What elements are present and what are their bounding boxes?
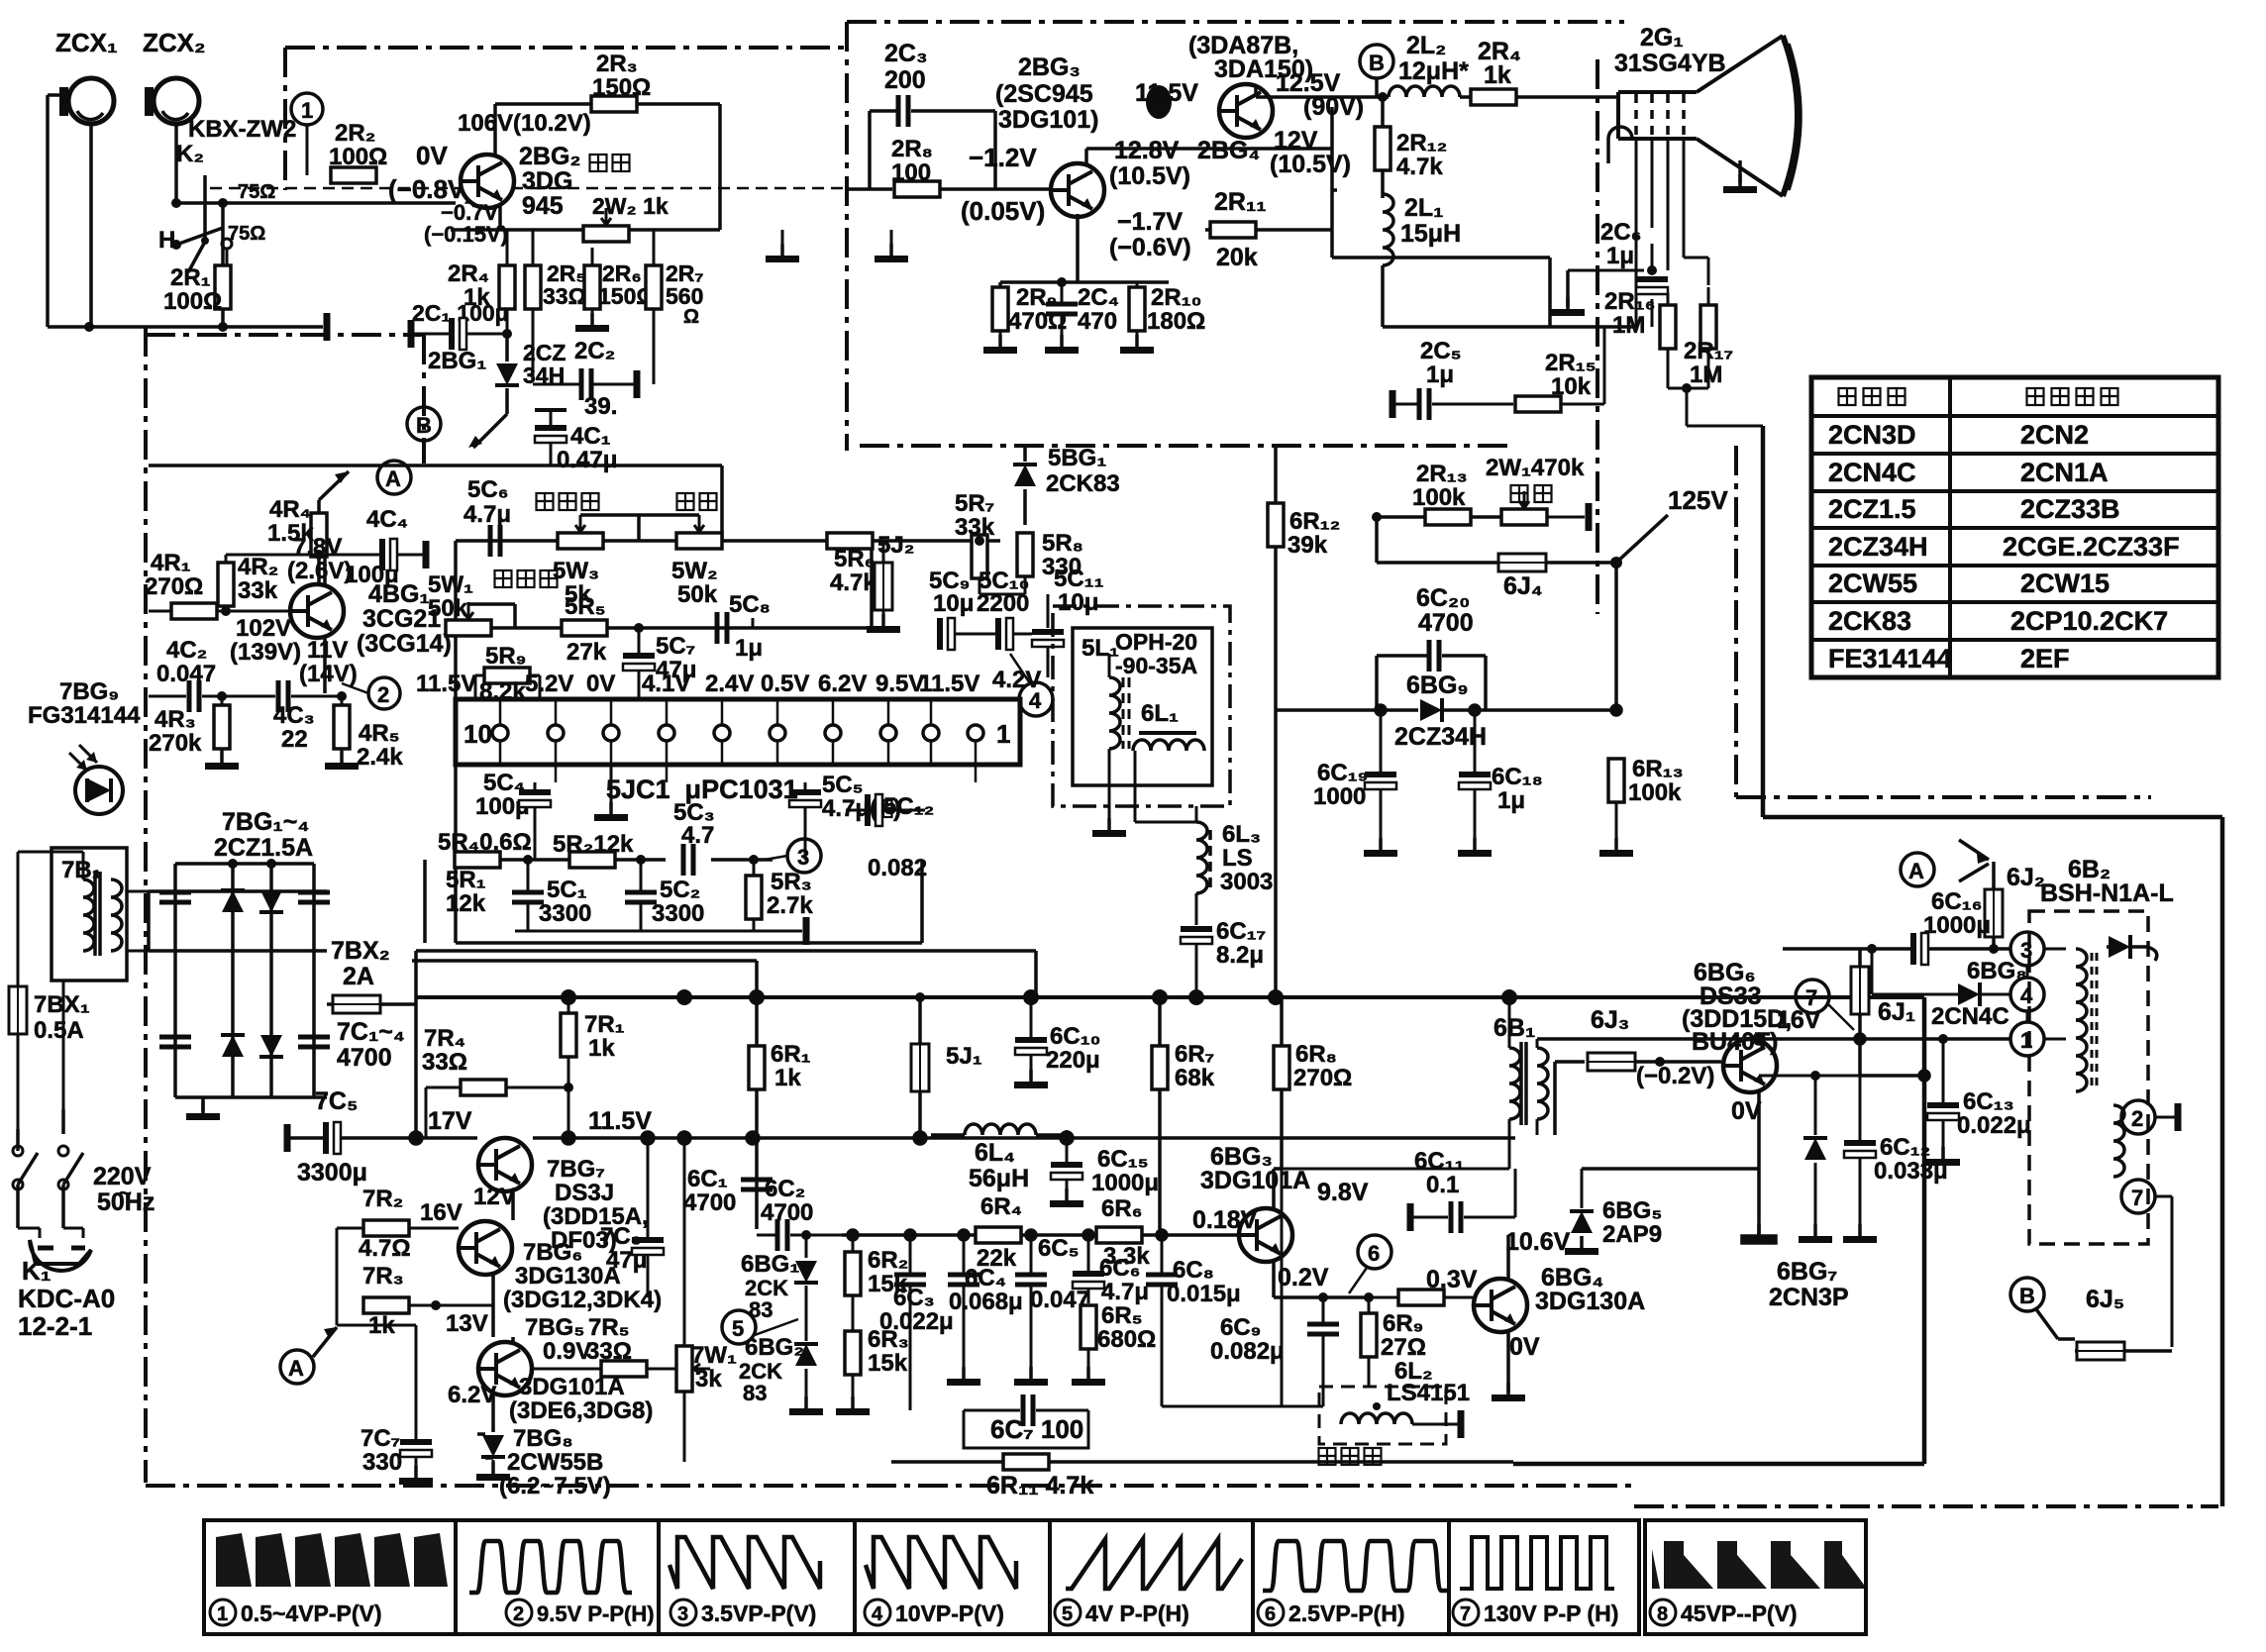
svg-text:6J₅: 6J₅ — [2086, 1286, 2124, 1313]
resistor 2R11 20k — [1205, 188, 1332, 271]
svg-text:4C₂: 4C₂ — [166, 637, 207, 664]
fuse 6J2 — [1985, 862, 2045, 954]
svg-text:6BG₅: 6BG₅ — [1602, 1197, 1662, 1224]
svg-text:50k: 50k — [428, 595, 468, 622]
svg-text:2BG₄: 2BG₄ — [1197, 137, 1260, 164]
wire signal row — [842, 1230, 1243, 1240]
svg-text:K₂: K₂ — [176, 141, 204, 167]
IC 5JC1 μPC1031 — [456, 699, 1020, 804]
svg-text:1: 1 — [301, 98, 313, 123]
wire audio frame — [48, 95, 456, 327]
svg-text:6C₆: 6C₆ — [1099, 1255, 1141, 1282]
svg-text:6C₂: 6C₂ — [765, 1176, 805, 1202]
svg-text:7C₇: 7C₇ — [360, 1425, 400, 1452]
svg-text:270Ω: 270Ω — [145, 573, 203, 600]
fuse 5J1 — [911, 992, 982, 1135]
svg-text:5C₁₁: 5C₁₁ — [1054, 566, 1104, 592]
label -1.2V — [961, 143, 1045, 226]
diode 6BG1 2CK83 — [741, 1230, 818, 1322]
svg-text:7BX₁: 7BX₁ — [34, 991, 90, 1018]
resistor 2R9 470Ω — [983, 282, 1067, 354]
svg-text:(14V): (14V) — [299, 661, 358, 687]
svg-text:6C₁₇: 6C₁₇ — [1216, 918, 1266, 945]
transformer 7B1 — [51, 848, 127, 981]
svg-text:0.047: 0.047 — [156, 661, 216, 687]
svg-text:H: H — [158, 227, 175, 254]
node 2 circled pin — [2121, 1100, 2178, 1134]
capacitor 7C7 330 — [337, 1325, 433, 1485]
transistor 2BG3 — [995, 53, 1172, 217]
resistor 5R5 27k — [562, 593, 607, 666]
node A circled right — [1901, 840, 1989, 886]
wire video top rails — [1383, 325, 1636, 329]
svg-text:9.8V: 9.8V — [1317, 1179, 1369, 1206]
svg-text:2: 2 — [2131, 1106, 2143, 1131]
svg-text:5R₆: 5R₆ — [834, 546, 875, 572]
svg-text:56μH: 56μH — [969, 1165, 1029, 1192]
zener 7BG8 2CW55B — [476, 1425, 611, 1499]
resistor 6R1 1k — [749, 997, 811, 1229]
svg-text:5C₂: 5C₂ — [660, 877, 700, 903]
svg-text:2R₁₅: 2R₁₅ — [1545, 350, 1596, 376]
svg-text:2200: 2200 — [977, 590, 1029, 617]
wire right frame solid — [1763, 426, 2222, 1506]
svg-text:7BG₅: 7BG₅ — [525, 1314, 584, 1341]
fuse 6J1 — [1851, 949, 1915, 1039]
section border dash-dot right middle — [1736, 446, 2151, 797]
svg-text:2BG₂: 2BG₂ — [519, 143, 581, 170]
svg-text:6L₃: 6L₃ — [1222, 821, 1261, 848]
svg-text:5C₅: 5C₅ — [822, 772, 864, 798]
svg-text:75Ω: 75Ω — [228, 223, 265, 245]
switch K1 — [13, 1109, 115, 1341]
svg-text:4.7k: 4.7k — [830, 569, 876, 596]
svg-text:10μ: 10μ — [1058, 589, 1098, 616]
svg-text:11V: 11V — [307, 637, 348, 664]
svg-text:5C₆: 5C₆ — [467, 476, 509, 503]
svg-text:83: 83 — [743, 1381, 767, 1405]
svg-text:6C₅: 6C₅ — [1038, 1235, 1080, 1262]
switch H lever — [158, 227, 232, 265]
svg-text:3300: 3300 — [539, 900, 591, 927]
svg-text:2C₃: 2C₃ — [884, 40, 928, 67]
svg-text:8: 8 — [1657, 1603, 1668, 1625]
capacitor 6C5 0.047 — [1014, 1235, 1089, 1386]
node junctions — [84, 198, 228, 332]
capacitor 5C2 3300 — [625, 855, 704, 931]
svg-text:5W₃: 5W₃ — [553, 558, 599, 584]
potentiometer 2W1 470k 亮度 — [1486, 455, 1589, 531]
svg-text:1000μ: 1000μ — [1091, 1170, 1159, 1196]
svg-text:6BG₇: 6BG₇ — [1777, 1258, 1837, 1286]
resistor 6R4 22k — [976, 1193, 1022, 1272]
svg-text:2CN3D: 2CN3D — [1828, 420, 1916, 450]
svg-text:17V: 17V — [428, 1107, 472, 1135]
capacitor 5C4 100μ — [475, 770, 551, 860]
svg-text:(3CG14): (3CG14) — [357, 630, 452, 658]
resistor 2R3 150Ω — [591, 51, 720, 230]
svg-text:2R₁₆: 2R₁₆ — [1604, 288, 1656, 315]
svg-text:6C₁₆: 6C₁₆ — [1931, 888, 1983, 915]
svg-text:3DG: 3DG — [522, 167, 572, 195]
diode 6BG5 2AP9 — [1565, 1169, 1662, 1255]
svg-text:7C₁~₄: 7C₁~₄ — [337, 1018, 405, 1046]
svg-text:11.5V: 11.5V — [1135, 79, 1198, 107]
svg-text:6: 6 — [1368, 1241, 1380, 1266]
section border dash-dot frame top-left — [285, 48, 847, 190]
resistor 6R6 3.3k — [1096, 1195, 1150, 1270]
svg-text:4BG₁: 4BG₁ — [368, 580, 430, 608]
svg-text:(2.6V): (2.6V) — [287, 558, 352, 584]
svg-text:2CZ34H: 2CZ34H — [1828, 532, 1928, 562]
capacitor 6C11 0.1 — [1410, 1148, 1515, 1233]
svg-text:2.5VP-P(H): 2.5VP-P(H) — [1288, 1600, 1405, 1626]
diode 6BG8 2CN4C — [1872, 949, 2027, 1030]
svg-text:13V: 13V — [446, 1310, 488, 1337]
svg-text:12-2-1: 12-2-1 — [18, 1311, 92, 1341]
resistor 2R7 560Ω — [646, 230, 704, 384]
svg-text:2BG₃: 2BG₃ — [1018, 53, 1081, 81]
potentiometer 5W3 5k — [553, 515, 603, 608]
svg-text:4C₁: 4C₁ — [570, 423, 611, 450]
resistor 6R11 4.7k — [891, 1454, 1513, 1499]
svg-text:KDC-A0: KDC-A0 — [18, 1284, 115, 1313]
svg-text:5C₈: 5C₈ — [729, 591, 771, 618]
svg-text:180Ω: 180Ω — [1147, 308, 1205, 335]
svg-text:2CGE.2CZ33F: 2CGE.2CZ33F — [2003, 532, 2180, 562]
svg-text:Ω: Ω — [683, 306, 699, 328]
svg-text:2R₁₂: 2R₁₂ — [1396, 130, 1447, 156]
wire ground stubs — [782, 230, 891, 256]
svg-text:12V: 12V — [473, 1184, 516, 1210]
svg-text:5C₁: 5C₁ — [547, 877, 587, 903]
capacitor 2C6 1μ — [1600, 219, 1668, 327]
waveform box 3 — [659, 1520, 855, 1634]
node 5 circled — [722, 1310, 756, 1344]
capacitor 5C10 2200 — [954, 568, 1032, 650]
rectifier bridge 7BG1-4 — [149, 808, 330, 1097]
svg-text:20k: 20k — [1216, 244, 1258, 271]
wire dashed signal run — [210, 187, 847, 190]
capacitor 2C5 1μ — [1392, 338, 1486, 420]
svg-text:4R₂: 4R₂ — [238, 554, 278, 580]
transistor 6BG4 3DG130A — [1474, 1228, 1645, 1401]
svg-text:1k: 1k — [1484, 61, 1511, 89]
svg-text:7BG₁~₄: 7BG₁~₄ — [222, 808, 309, 836]
svg-text:6C₁₂: 6C₁₂ — [1880, 1134, 1930, 1161]
svg-text:27Ω: 27Ω — [1381, 1334, 1426, 1361]
svg-text:6R₉: 6R₉ — [1383, 1310, 1423, 1337]
svg-text:(3DE6,3DG8): (3DE6,3DG8) — [509, 1397, 653, 1424]
svg-text:0.022μ: 0.022μ — [1957, 1112, 2031, 1139]
label 7.8V — [287, 534, 352, 584]
svg-text:2R₁₁: 2R₁₁ — [1214, 188, 1267, 216]
svg-text:15μH: 15μH — [1400, 220, 1461, 248]
svg-text:200: 200 — [884, 66, 926, 94]
svg-text:4R₅: 4R₅ — [359, 720, 400, 747]
table rows — [1828, 420, 2180, 673]
capacitor 4C1 0.47μ — [535, 410, 617, 473]
capacitor 6C15 1000μ — [1050, 1130, 1159, 1207]
svg-text:945: 945 — [522, 192, 564, 220]
svg-text:7R₅: 7R₅ — [588, 1314, 630, 1341]
svg-text:2W₁470k: 2W₁470k — [1486, 455, 1585, 481]
svg-text:7R₄: 7R₄ — [424, 1025, 465, 1052]
svg-text:2CZ1.5: 2CZ1.5 — [1828, 494, 1916, 524]
svg-text:2R₄: 2R₄ — [448, 260, 489, 287]
ground terminal — [326, 313, 328, 341]
svg-text:3: 3 — [797, 845, 809, 870]
resistor 6R2 15k — [845, 1235, 908, 1327]
CRT 2G1 31SG4YB — [1608, 24, 1801, 196]
wire mid bus rows — [412, 860, 922, 997]
svg-text:3DG101A: 3DG101A — [1200, 1167, 1310, 1194]
resistor 6R5 680Ω — [1072, 1302, 1156, 1386]
svg-text:6R₁₃: 6R₁₃ — [1632, 756, 1684, 782]
capacitor 2C3 200 — [870, 40, 995, 189]
svg-text:6R₁₂: 6R₁₂ — [1289, 508, 1340, 535]
capacitor 6C18 1μ — [1458, 710, 1543, 857]
svg-text:4V P-P(H): 4V P-P(H) — [1085, 1600, 1189, 1626]
section border dash-dot frame video section — [847, 22, 1624, 614]
wire 2BG3 collector to 2BG4 — [1086, 107, 1337, 258]
svg-text:2C₄: 2C₄ — [1078, 284, 1119, 311]
svg-text:2AP9: 2AP9 — [1602, 1221, 1662, 1248]
resistor 6R8 270Ω — [1274, 997, 1352, 1169]
resistor 6R9 27Ω — [1361, 1292, 1426, 1387]
svg-text:3DG101): 3DG101) — [998, 106, 1098, 134]
wire 6BG3 emitter node — [1274, 1260, 1367, 1297]
svg-text:6C₉: 6C₉ — [1220, 1314, 1261, 1341]
svg-text:2CK83: 2CK83 — [1046, 470, 1120, 497]
capacitor 5C3 4.7 — [673, 799, 715, 876]
node 1 circled pin — [2010, 1022, 2044, 1056]
svg-text:4.7k: 4.7k — [1396, 154, 1443, 180]
speaker ZCX1 — [55, 28, 118, 124]
svg-text:4700: 4700 — [683, 1189, 736, 1216]
resistor 7R1 1k — [561, 997, 625, 1138]
svg-text:2A: 2A — [343, 963, 374, 990]
svg-text:6C₁₃: 6C₁₃ — [1963, 1088, 2014, 1115]
svg-text:2CZ1.5A: 2CZ1.5A — [214, 834, 313, 862]
resistor 7R5 33Ω — [532, 1314, 675, 1377]
wire IC pin stubs — [500, 699, 976, 782]
resistor 4R4 1.5k — [267, 471, 349, 584]
svg-text:ZCX₂: ZCX₂ — [143, 28, 206, 57]
svg-text:1: 1 — [996, 719, 1010, 749]
wire 2BG4 collector rail — [1256, 78, 1389, 97]
label 6B2 BSH-N1A-L — [2040, 856, 2174, 907]
svg-text:LS: LS — [1222, 845, 1253, 872]
node 3 circled pin — [2010, 932, 2044, 966]
resistor 4R1 270Ω — [145, 550, 290, 619]
svg-text:7: 7 — [1460, 1603, 1471, 1625]
label 场同步 — [495, 570, 558, 587]
svg-text:12k: 12k — [446, 890, 486, 917]
svg-text:BSH-N1A-L: BSH-N1A-L — [2040, 879, 2174, 907]
resistor 6R12 39k — [1268, 446, 1340, 997]
transistor 2BG4 — [1135, 32, 1364, 178]
resistor 2R1 100Ω — [163, 264, 231, 315]
svg-text:(0.05V): (0.05V) — [961, 196, 1045, 226]
label IC pin voltages — [416, 671, 979, 697]
wire 2BG2 emitter row — [451, 204, 720, 230]
svg-text:11.5V: 11.5V — [416, 671, 476, 697]
svg-text:150Ω: 150Ω — [592, 74, 651, 101]
plug — [18, 1228, 91, 1271]
resistor 5R9 8.2k — [475, 643, 540, 705]
svg-text:6J₃: 6J₃ — [1591, 1006, 1629, 1034]
svg-text:100k: 100k — [1628, 779, 1682, 806]
svg-text:4: 4 — [1029, 688, 1042, 713]
svg-text:(139V): (139V) — [230, 639, 301, 666]
svg-text:7BG₉: 7BG₉ — [59, 678, 119, 705]
svg-text:2CW55B: 2CW55B — [507, 1449, 603, 1476]
svg-text:5R₅: 5R₅ — [565, 593, 606, 620]
capacitor 5C12 0.082 — [846, 793, 934, 881]
svg-text:106V(10.2V): 106V(10.2V) — [458, 110, 591, 137]
svg-text:6C₁₈: 6C₁₈ — [1492, 764, 1543, 790]
node B circled bottom — [2010, 1278, 2075, 1339]
label 场线性 — [537, 493, 599, 510]
svg-text:6R₇: 6R₇ — [1175, 1041, 1214, 1068]
label 11V — [299, 637, 358, 687]
label 102V — [230, 615, 301, 666]
svg-text:7.8V: 7.8V — [293, 534, 342, 561]
inductor 6L2 LS4151 dashed — [1319, 1358, 1470, 1444]
svg-text:2R₉: 2R₉ — [1016, 284, 1057, 311]
wire pin links — [2027, 949, 2066, 1039]
capacitor 5C7 47μ — [623, 623, 696, 699]
svg-text:6R₅: 6R₅ — [1101, 1302, 1143, 1329]
svg-text:8.2μ: 8.2μ — [1216, 942, 1264, 969]
svg-text:B: B — [2019, 1284, 2035, 1308]
svg-text:5J₁: 5J₁ — [946, 1043, 982, 1070]
node 5 link — [755, 1319, 798, 1335]
wire bottom-right frame solid — [1513, 997, 1924, 1464]
svg-text:680Ω: 680Ω — [1097, 1326, 1156, 1353]
svg-text:A: A — [288, 1356, 304, 1381]
svg-text:(−0.15V): (−0.15V) — [424, 222, 508, 247]
svg-text:6BG₁: 6BG₁ — [741, 1251, 799, 1278]
svg-text:2L₂: 2L₂ — [1406, 32, 1446, 59]
diode substitution table — [1811, 377, 2218, 677]
label 行同步 — [1319, 1448, 1382, 1465]
svg-text:BU40T): BU40T) — [1692, 1028, 1779, 1056]
capacitor 6C3 0.022μ — [879, 1235, 954, 1410]
transistor 7BG5 3DG101A — [448, 1314, 653, 1432]
svg-text:33Ω: 33Ω — [543, 283, 586, 309]
svg-text:7: 7 — [1805, 985, 1817, 1010]
node 2 circled — [342, 677, 400, 709]
resistor 5R4 0.6Ω — [438, 829, 532, 868]
ground left pair 2 — [875, 244, 908, 262]
label 220V 50Hz — [93, 1163, 154, 1216]
fuse 6J3 — [1555, 1006, 1674, 1135]
svg-text:5R₇: 5R₇ — [955, 490, 994, 517]
node B circled top — [1360, 45, 1393, 78]
svg-text:B: B — [416, 413, 432, 438]
wire 2BG3 emitter — [1000, 214, 1550, 327]
svg-text:(−0.2V): (−0.2V) — [1636, 1063, 1714, 1089]
resistor 6R3 15k — [836, 1326, 909, 1415]
label 辉度 brightness — [590, 155, 630, 171]
svg-text:7R₂: 7R₂ — [362, 1186, 403, 1212]
capacitor 6C20 4700 — [1377, 584, 1486, 710]
resistor 5R2 12k — [553, 831, 634, 868]
capacitor 5C8 1μ — [717, 591, 771, 662]
node 3 circled — [765, 839, 821, 873]
svg-text:0.082: 0.082 — [868, 855, 927, 881]
resistor 2R8 100 — [847, 136, 1049, 197]
waveform box 8 — [1645, 1520, 1866, 1634]
photodiode 7BG9 FG314144 — [28, 678, 141, 814]
node B circled — [407, 407, 441, 441]
potentiometer 5W2 50k — [671, 515, 722, 608]
svg-text:0.5V: 0.5V — [761, 671, 809, 697]
svg-text:1k: 1k — [588, 1035, 615, 1062]
resistor 4R2 33k — [218, 554, 319, 616]
svg-text:1μ: 1μ — [1426, 361, 1454, 388]
capacitor 4C3 22 — [273, 680, 342, 753]
capacitor 6C17 8.2μ — [1181, 918, 1266, 997]
wire 5L1 leads — [1109, 654, 1196, 822]
svg-text:5.2V: 5.2V — [525, 671, 573, 697]
capacitor 7C6 47μ — [600, 1133, 664, 1297]
svg-text:100Ω: 100Ω — [329, 144, 387, 170]
svg-text:6.2V: 6.2V — [818, 671, 867, 697]
svg-text:9.5V: 9.5V — [875, 671, 924, 697]
svg-text:4: 4 — [2020, 983, 2033, 1008]
resistor 2R6 150Ω — [575, 248, 655, 332]
svg-text:(10.5V): (10.5V) — [1109, 162, 1190, 190]
fuse 7BX2 2A — [327, 937, 1036, 1013]
potentiometer 5W1 50k — [428, 571, 491, 636]
svg-text:2: 2 — [377, 682, 389, 707]
svg-text:2EF: 2EF — [2020, 644, 2070, 673]
svg-text:75Ω: 75Ω — [238, 181, 275, 203]
wire supply rail 17V — [410, 1004, 1515, 1144]
transformer 6B2 dashed box — [2029, 911, 2148, 1244]
svg-text:0.022μ: 0.022μ — [879, 1308, 954, 1335]
svg-text:5: 5 — [1062, 1603, 1073, 1625]
svg-text:5C₄: 5C₄ — [483, 770, 525, 796]
svg-text:2R₃: 2R₃ — [596, 51, 638, 77]
svg-text:2: 2 — [513, 1603, 524, 1625]
svg-text:2CK83: 2CK83 — [1828, 606, 1911, 636]
svg-text:1000: 1000 — [1313, 783, 1366, 810]
svg-text:50k: 50k — [677, 581, 718, 608]
resistor 2R5 33Ω — [525, 230, 586, 381]
resistor 2R4 1k — [448, 230, 515, 334]
node 6 circled — [1349, 1235, 1391, 1293]
svg-text:7BG₆: 7BG₆ — [523, 1239, 582, 1266]
svg-text:A: A — [1908, 859, 1924, 883]
svg-text:3DG130A: 3DG130A — [1535, 1288, 1645, 1315]
diode 6B2 rectifier — [2076, 935, 2157, 961]
svg-text:KBX-ZW2: KBX-ZW2 — [188, 116, 296, 143]
svg-text:100Ω: 100Ω — [163, 288, 222, 315]
svg-text:6R₈: 6R₈ — [1295, 1041, 1337, 1068]
svg-text:6C₈: 6C₈ — [1173, 1257, 1214, 1284]
svg-text:270Ω: 270Ω — [1293, 1065, 1352, 1091]
transistor 2BG2 — [458, 110, 591, 220]
svg-text:5W₁: 5W₁ — [428, 571, 473, 598]
capacitor 6C19 1000 — [1313, 710, 1397, 857]
diode 5BG1 2CK83 — [1013, 445, 1120, 525]
svg-text:45VP--P(V): 45VP--P(V) — [1681, 1600, 1798, 1626]
svg-text:33k: 33k — [238, 577, 278, 604]
